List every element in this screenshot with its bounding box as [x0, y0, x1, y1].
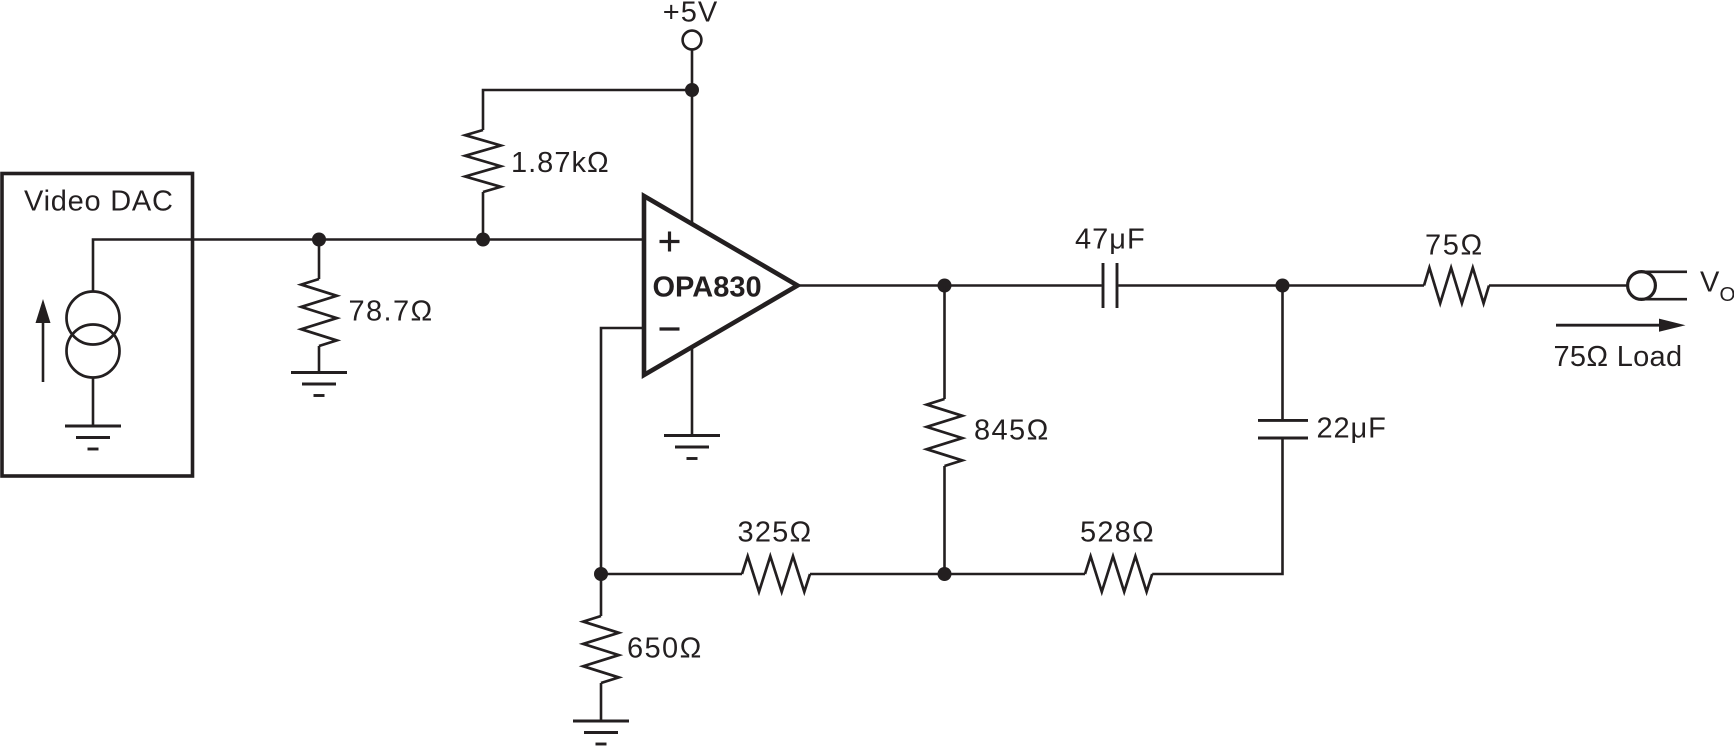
svg-text:845Ω: 845Ω	[974, 415, 1050, 447]
svg-text:O: O	[1720, 283, 1734, 306]
resistor 75R	[1424, 268, 1489, 304]
node: junction at 22uF	[1276, 279, 1290, 293]
svg-text:75Ω: 75Ω	[1425, 230, 1484, 262]
output connector	[1628, 272, 1656, 300]
node: junction on input rail at 78.7R	[312, 233, 326, 247]
op-amp U1 OPA830	[644, 196, 798, 375]
current direction arrow	[42, 320, 45, 382]
node: junction on input rail at 1.87k	[476, 233, 490, 247]
wire op-amp output	[798, 284, 1102, 287]
minus input marker	[660, 327, 680, 330]
wire	[318, 346, 321, 373]
svg-text:650Ω: 650Ω	[627, 633, 703, 665]
node: +5V junction	[685, 83, 699, 97]
ground (op-amp)	[664, 436, 720, 459]
resistor 78.7R	[301, 279, 337, 346]
Video DAC box	[2, 174, 193, 477]
svg-text:1.87kΩ: 1.87kΩ	[511, 147, 610, 179]
wire	[482, 192, 485, 240]
resistor 528R	[1085, 556, 1152, 592]
node: feedback junction at 845R	[938, 567, 952, 581]
capacitor 22uF	[1258, 420, 1308, 438]
plus input marker	[660, 232, 680, 252]
wire	[318, 240, 321, 280]
svg-text:78.7Ω: 78.7Ω	[349, 296, 434, 328]
wire	[1118, 284, 1424, 287]
resistor 650R	[583, 616, 619, 683]
current source I1	[67, 292, 120, 345]
wire op-amp ground pin	[691, 347, 694, 436]
svg-text:325Ω: 325Ω	[738, 517, 813, 549]
svg-text:V: V	[1700, 266, 1720, 298]
capacitor 47uF	[1103, 263, 1117, 308]
wire	[943, 286, 946, 400]
wire +5V to op-amp supply pin	[691, 49, 694, 224]
wire from current source to output rail	[93, 240, 644, 292]
resistor 845R	[927, 399, 963, 466]
wire inverting input	[601, 328, 644, 574]
wire	[1281, 286, 1284, 421]
wire	[601, 573, 742, 576]
ground (inside DAC)	[65, 426, 121, 449]
wire	[1489, 284, 1628, 287]
75R load arrow	[1556, 324, 1663, 327]
svg-text:Video DAC: Video DAC	[24, 186, 174, 218]
+5V terminal	[683, 31, 702, 50]
svg-text:OPA830: OPA830	[653, 272, 762, 304]
svg-text:528Ω: 528Ω	[1080, 517, 1155, 549]
node: inverting node junction	[594, 567, 608, 581]
wire	[483, 90, 692, 130]
svg-text:47μF: 47μF	[1075, 224, 1146, 256]
wire	[600, 683, 603, 721]
node: output junction at 845R	[938, 279, 952, 293]
ground (78.7R)	[291, 373, 347, 396]
wire	[600, 574, 603, 616]
svg-text:22μF: 22μF	[1317, 412, 1387, 444]
wire	[92, 378, 95, 427]
wire	[943, 466, 946, 574]
wire	[810, 573, 1085, 576]
svg-text:+5V: +5V	[663, 0, 718, 29]
wire	[1152, 438, 1282, 574]
resistor 325R	[742, 556, 810, 592]
svg-text:75Ω Load: 75Ω Load	[1554, 341, 1683, 373]
ground (650R)	[573, 721, 629, 744]
resistor 1.87k	[465, 130, 501, 192]
